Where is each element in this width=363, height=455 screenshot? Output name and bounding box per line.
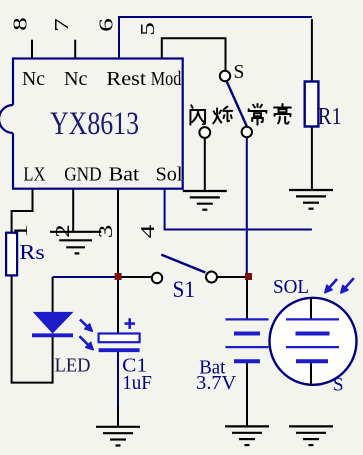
svg-text:3.7V: 3.7V <box>196 373 236 394</box>
svg-text:Nc: Nc <box>64 68 88 90</box>
svg-text:1: 1 <box>10 224 32 238</box>
svg-text:7: 7 <box>51 18 73 32</box>
svg-text:Rs: Rs <box>19 240 45 264</box>
svg-text:R1: R1 <box>318 104 342 130</box>
svg-text:2: 2 <box>52 224 74 238</box>
svg-text:8: 8 <box>10 17 32 31</box>
svg-text:4: 4 <box>137 225 159 239</box>
svg-text:S: S <box>333 375 344 396</box>
svg-text:S1: S1 <box>173 277 196 302</box>
svg-text:3: 3 <box>95 225 117 239</box>
svg-text:Rest: Rest <box>106 68 146 90</box>
svg-text:S: S <box>234 62 245 83</box>
svg-text:Mod: Mod <box>151 68 182 90</box>
svg-text:Nc: Nc <box>22 68 45 90</box>
svg-text:YX8613: YX8613 <box>50 106 139 142</box>
svg-text:SOL: SOL <box>273 277 309 298</box>
svg-text:LX: LX <box>23 163 45 185</box>
svg-text:5: 5 <box>137 22 159 36</box>
svg-text:Sol: Sol <box>156 163 183 185</box>
svg-text:GND: GND <box>64 163 101 185</box>
svg-text:1uF: 1uF <box>122 373 152 394</box>
svg-text:Bat: Bat <box>109 163 140 185</box>
svg-text:6: 6 <box>96 18 118 32</box>
svg-text:LED: LED <box>55 356 91 377</box>
